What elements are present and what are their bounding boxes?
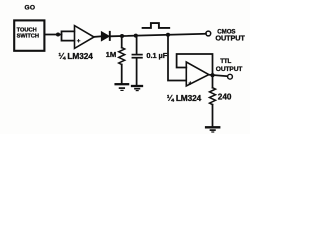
svg-text:¼ LM324: ¼ LM324	[167, 93, 202, 103]
svg-text:OUTPUT: OUTPUT	[216, 66, 243, 73]
capacitor C1 0.1 uF	[132, 54, 142, 56]
wire main rail from diode to CMOS output	[111, 34, 206, 37]
wire rail down to U2 non-inverting input	[168, 35, 186, 81]
diode D1 cathode bar	[109, 31, 111, 41]
junction dot U2 output node	[210, 73, 214, 77]
wire R2 to ground	[212, 105, 214, 127]
svg-text:OUTPUT: OUTPUT	[215, 34, 245, 43]
wire U2 output to TTL terminal	[209, 75, 227, 77]
wire input split to both op-amp inputs	[62, 31, 75, 40]
plus mark on U2 non-inverting input	[189, 82, 192, 85]
wire rail to resistor R1	[121, 36, 123, 48]
svg-text:GO: GO	[25, 5, 36, 12]
junction dot 1M branch	[120, 34, 124, 38]
diode D1	[101, 32, 109, 41]
junction dot capacitor branch	[134, 34, 138, 38]
svg-text:¼ LM324: ¼ LM324	[58, 51, 93, 61]
svg-text:0.1 µF: 0.1 µF	[146, 51, 167, 60]
resistor R2 240	[210, 88, 216, 105]
op-amp U1 (1/4 LM324)	[75, 26, 95, 49]
pulse waveform symbol	[143, 23, 170, 28]
svg-text:1M: 1M	[106, 50, 117, 59]
wire from touch switch to op-amp input node	[45, 34, 62, 36]
wire output node to resistor R2	[212, 75, 214, 87]
plus mark on U1 non-inverting input	[77, 40, 80, 43]
ground under R1	[116, 83, 129, 85]
wire C1 to ground	[136, 59, 138, 85]
op-amp U2 (1/4 LM324)	[186, 62, 209, 86]
resistor R1 1M	[119, 48, 125, 65]
ground under C1	[132, 85, 142, 87]
svg-text:TTL: TTL	[220, 58, 231, 65]
TTL output terminal	[228, 74, 233, 79]
ground under R2	[206, 126, 219, 128]
junction dot U2 branch	[166, 33, 170, 37]
wire R1 to ground	[121, 65, 123, 84]
feedback wire U2 output to inverting input	[177, 54, 213, 75]
wire U1 output to diode	[94, 35, 102, 38]
svg-text:SWITCH: SWITCH	[17, 34, 39, 40]
svg-text:240: 240	[218, 93, 232, 102]
CMOS output terminal	[206, 31, 211, 36]
touch switch box	[14, 20, 44, 50]
wire rail to capacitor C1	[136, 36, 138, 54]
junction dot node A	[56, 32, 60, 36]
